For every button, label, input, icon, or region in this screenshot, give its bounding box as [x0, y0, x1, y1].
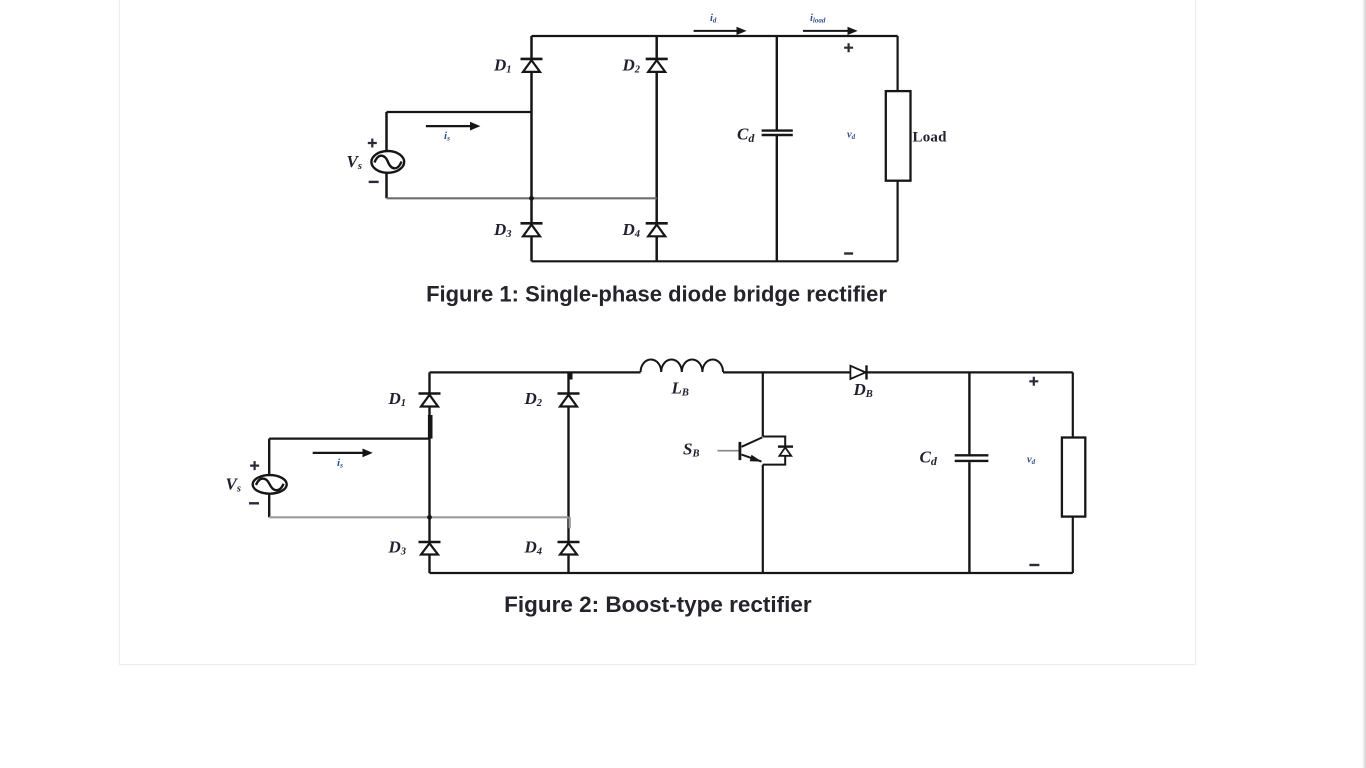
figure 1 : diode D4 [646, 223, 668, 236]
figure 2 : thick segment on left leg above source node [428, 415, 433, 439]
figure 1 : output plus polarity mark [844, 43, 853, 52]
document page background [119, 0, 1196, 665]
svg-text:vd: vd [1027, 455, 1036, 467]
figure 1 : output minus polarity mark [844, 252, 853, 254]
figure 1 : diode D2 [646, 59, 668, 72]
svg-text:D3: D3 [388, 538, 407, 558]
figure 2 : AC source Vs symbol [253, 475, 287, 494]
figure 1 : bridge left leg (D1/D3 leg) [530, 36, 533, 261]
figure 1 : bridge top wire [532, 35, 898, 37]
viewport right edge shading [1362, 0, 1366, 768]
svg-text:LB: LB [671, 379, 689, 399]
figure 2 : capacitor Cd plates [955, 455, 989, 461]
figure 2 : IGBT emitter stroke with arrow [742, 455, 762, 462]
figure 2 : output plus polarity mark [1029, 377, 1038, 386]
figure 2 : top wire left of inductor [430, 371, 641, 373]
figure 1 : load resistor rectangle [886, 91, 911, 181]
figure 2 : is current arrow [313, 449, 373, 458]
svg-text:DB: DB [853, 380, 873, 400]
figure 1 : right branch wire (load branch) [896, 36, 898, 261]
figure 2 : diode D3 [419, 542, 441, 555]
svg-text:Figure 1: Single-phase diode b: Figure 1: Single-phase diode bridge rect… [426, 282, 887, 307]
figure 2 : source top wire [269, 438, 429, 440]
figure 2 : inductor LB winding [641, 359, 723, 372]
figure 2 : source plus polarity mark [250, 461, 259, 470]
figure 1 : iload current arrow [803, 27, 858, 35]
svg-text:D1: D1 [388, 389, 407, 409]
figure 1 : id current arrow [694, 27, 747, 35]
figure 2 : source left wire [268, 439, 270, 518]
figure 2 : IGBT gate bar [739, 442, 742, 460]
figure 2 : source return wire (gray) [269, 516, 568, 518]
figure 1 : diode D3 [521, 223, 543, 236]
svg-text:D2: D2 [622, 56, 641, 76]
figure 2 : IGBT switch SB outer branch [763, 437, 785, 465]
figure 2 : diode D4 [558, 542, 580, 555]
svg-text:D1: D1 [493, 56, 512, 76]
figure 2 : diode D1 [419, 394, 441, 407]
figure 2 : IGBT gate lead [718, 450, 739, 452]
svg-text:D4: D4 [524, 538, 543, 558]
svg-text:Cd: Cd [920, 448, 938, 469]
figure 1 : capacitor Cd plates [762, 131, 793, 135]
figure 2 : bottom wire [430, 572, 1073, 574]
figure 2 : gray stub below right-leg node [569, 517, 571, 528]
figure 1 : diode D1 [521, 59, 543, 72]
svg-text:is: is [444, 130, 450, 143]
svg-text:Cd: Cd [737, 125, 755, 146]
figure 1 : source top wire [387, 111, 532, 113]
figure 2 : IGBT antiparallel diode [778, 447, 793, 456]
svg-text:iload: iload [810, 13, 826, 25]
svg-text:Vs: Vs [226, 475, 241, 495]
figure 1 : source minus polarity mark [369, 181, 379, 183]
figure 2 : output minus polarity mark [1029, 564, 1039, 566]
svg-text:D2: D2 [524, 389, 543, 409]
figure 2 : right branch wire (load branch) [1072, 372, 1074, 573]
figure 2 : bridge right leg (D2/D4 leg) [567, 372, 569, 573]
svg-text:vd: vd [847, 130, 856, 142]
figure 2 : IGBT collector stroke [742, 437, 763, 446]
figure 2 : source minus polarity mark [249, 502, 259, 504]
svg-text:id: id [710, 13, 717, 25]
figure 2 : load resistor rectangle [1062, 438, 1085, 517]
figure 2 : bridge left leg (D1/D3 leg) [428, 372, 430, 573]
figure 1 : source left wire [385, 112, 388, 198]
figure 2 : junction at node between source return and left leg [427, 515, 432, 520]
figure 1 : bridge second leg (D2/D4 leg) [655, 36, 658, 261]
figure 1 : source plus polarity mark [368, 139, 377, 148]
figure 1 : capacitor branch wire [776, 36, 778, 261]
svg-text:Vs: Vs [347, 152, 362, 172]
svg-text:SB: SB [683, 440, 699, 460]
svg-text:is: is [337, 457, 343, 470]
svg-text:Figure 2: Boost-type rectifier: Figure 2: Boost-type rectifier [504, 592, 812, 617]
svg-text:D3: D3 [493, 220, 512, 240]
figure 1 : source return wire (gray) [387, 197, 657, 199]
svg-text:D4: D4 [622, 220, 641, 240]
figure 1 : AC source Vs symbol [371, 151, 404, 173]
figure 1 : bridge bottom wire [532, 260, 898, 262]
figure 2 : diode D2 [558, 394, 580, 407]
figure 2 : boost diode DB [850, 365, 866, 379]
figure 2 : thick stub on right leg below top wire [569, 372, 573, 379]
figure 2 : capacitor branch wire [968, 372, 970, 573]
figure 1 : is current arrow [426, 122, 481, 131]
figure 1 : junction at node between source return and left leg [529, 196, 534, 201]
figure 2 : switch branch wire [762, 372, 764, 573]
figure 2 : top wire right of inductor [723, 371, 1073, 373]
svg-text:Load: Load [913, 130, 948, 146]
